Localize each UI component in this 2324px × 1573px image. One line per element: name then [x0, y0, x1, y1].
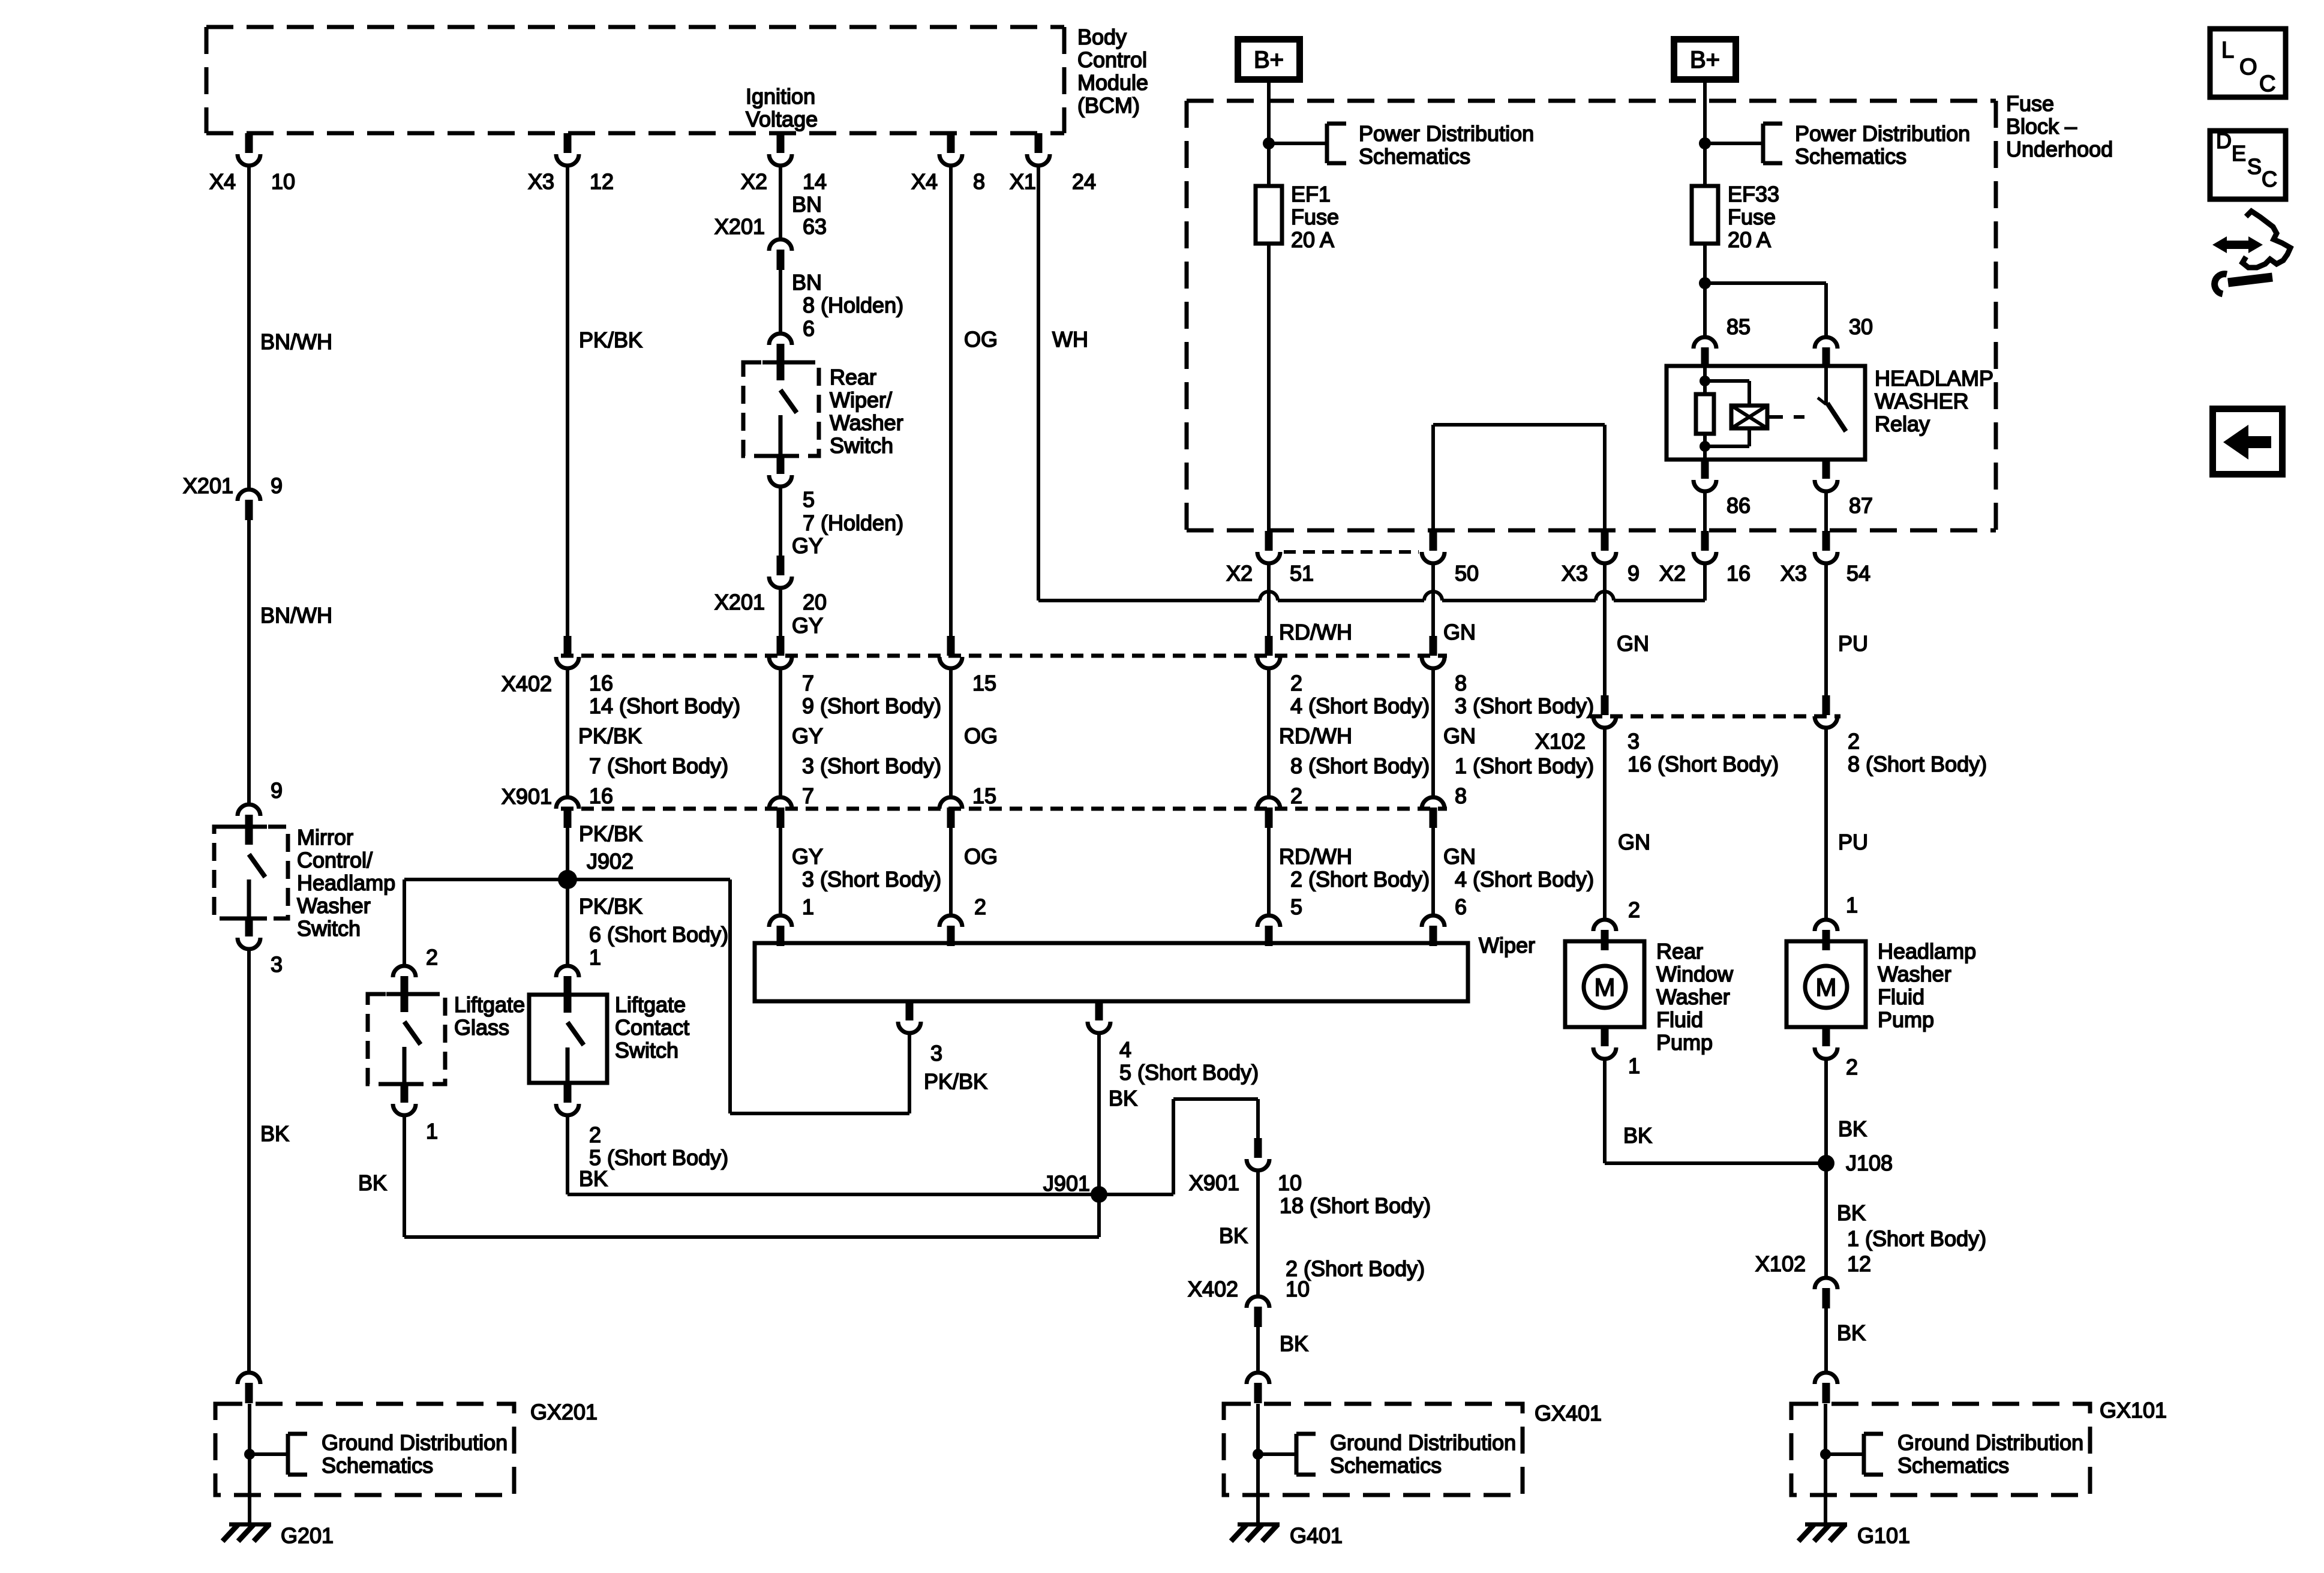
svg-text:15: 15: [972, 671, 996, 695]
svg-text:X2: X2: [1226, 561, 1253, 586]
svg-text:GX101: GX101: [2100, 1398, 2167, 1422]
svg-text:4: 4: [1119, 1037, 1131, 1062]
svg-text:86: 86: [1727, 493, 1750, 518]
svg-text:WH: WH: [1052, 327, 1088, 352]
svg-text:Ground Distribution: Ground Distribution: [1330, 1430, 1516, 1455]
svg-text:X901: X901: [1189, 1170, 1239, 1195]
svg-text:3: 3: [1628, 729, 1640, 754]
svg-text:5 (Short Body): 5 (Short Body): [589, 1145, 728, 1170]
svg-text:1 (Short Body): 1 (Short Body): [1455, 754, 1594, 778]
svg-text:OG: OG: [964, 844, 998, 869]
svg-text:16: 16: [589, 671, 613, 695]
svg-text:X4: X4: [209, 169, 236, 194]
svg-text:8: 8: [1455, 784, 1467, 808]
svg-text:6: 6: [803, 316, 815, 341]
svg-text:Control: Control: [1077, 47, 1147, 72]
svg-text:1: 1: [1846, 893, 1858, 917]
svg-text:2: 2: [1848, 729, 1860, 754]
svg-text:Schematics: Schematics: [322, 1453, 433, 1478]
svg-text:Liftgate: Liftgate: [615, 992, 686, 1017]
svg-text:X2: X2: [1659, 561, 1686, 586]
svg-text:8 (Short Body): 8 (Short Body): [1290, 754, 1430, 778]
svg-text:2: 2: [589, 1122, 601, 1147]
svg-text:Control/: Control/: [297, 848, 373, 872]
svg-text:Rear: Rear: [1656, 939, 1703, 963]
svg-text:X102: X102: [1755, 1251, 1806, 1276]
svg-text:X102: X102: [1535, 729, 1586, 754]
svg-text:Schematics: Schematics: [1795, 144, 1906, 169]
svg-text:GY: GY: [792, 844, 823, 869]
svg-text:X3: X3: [1780, 561, 1807, 586]
svg-text:OG: OG: [964, 724, 998, 748]
svg-text:Voltage: Voltage: [746, 107, 818, 131]
svg-text:PK/BK: PK/BK: [579, 328, 642, 352]
svg-text:RD/WH: RD/WH: [1279, 620, 1352, 644]
svg-text:Washer: Washer: [297, 893, 371, 918]
svg-text:50: 50: [1455, 561, 1479, 586]
svg-text:Fuse: Fuse: [2006, 91, 2054, 116]
svg-text:BK: BK: [1219, 1223, 1248, 1248]
svg-text:Relay: Relay: [1875, 412, 1930, 436]
svg-text:S: S: [2247, 154, 2262, 179]
svg-text:2: 2: [1290, 784, 1302, 808]
svg-text:BK: BK: [1838, 1116, 1867, 1141]
svg-text:24: 24: [1072, 169, 1096, 194]
svg-text:BK: BK: [579, 1166, 608, 1191]
svg-text:9: 9: [271, 473, 283, 498]
svg-text:GN: GN: [1617, 631, 1649, 656]
svg-text:3: 3: [930, 1041, 942, 1065]
svg-text:C: C: [2262, 167, 2277, 191]
svg-text:16: 16: [589, 784, 613, 808]
svg-text:Fuse: Fuse: [1291, 205, 1339, 229]
svg-text:7 (Short Body): 7 (Short Body): [589, 754, 728, 778]
svg-text:1: 1: [802, 894, 814, 919]
svg-text:X2: X2: [741, 169, 767, 194]
svg-text:GY: GY: [792, 533, 823, 558]
svg-text:BK: BK: [1837, 1320, 1866, 1345]
svg-text:9: 9: [1628, 561, 1640, 586]
svg-text:Power Distribution: Power Distribution: [1359, 121, 1534, 146]
svg-text:1: 1: [589, 945, 601, 969]
svg-text:X3: X3: [1562, 561, 1588, 586]
svg-text:RD/WH: RD/WH: [1279, 724, 1352, 748]
svg-text:X201: X201: [714, 214, 765, 239]
svg-text:10: 10: [1278, 1170, 1302, 1195]
svg-text:PK/BK: PK/BK: [924, 1069, 987, 1094]
svg-text:Block –: Block –: [2006, 114, 2077, 139]
svg-text:B+: B+: [1690, 47, 1720, 73]
svg-text:Headlamp: Headlamp: [297, 870, 395, 895]
svg-text:2: 2: [1290, 671, 1302, 695]
svg-text:16 (Short Body): 16 (Short Body): [1628, 752, 1779, 776]
svg-text:C: C: [2259, 71, 2275, 97]
svg-text:7: 7: [802, 784, 814, 808]
svg-text:PK/BK: PK/BK: [578, 724, 642, 748]
svg-text:16: 16: [1727, 561, 1750, 586]
svg-text:5 (Short Body): 5 (Short Body): [1119, 1060, 1259, 1085]
svg-text:1: 1: [1628, 1053, 1640, 1078]
svg-text:GN: GN: [1443, 844, 1476, 869]
svg-text:Fluid: Fluid: [1878, 984, 1924, 1009]
svg-text:14 (Short Body): 14 (Short Body): [589, 694, 740, 718]
svg-text:J108: J108: [1846, 1151, 1893, 1175]
svg-text:6 (Short Body): 6 (Short Body): [589, 922, 728, 947]
svg-text:Mirror: Mirror: [297, 825, 353, 849]
svg-text:9: 9: [271, 778, 283, 803]
svg-text:Contact: Contact: [615, 1015, 689, 1040]
svg-text:Window: Window: [1656, 962, 1734, 986]
svg-text:X201: X201: [183, 473, 233, 498]
svg-text:8 (Short Body): 8 (Short Body): [1848, 752, 1987, 776]
svg-text:10: 10: [1286, 1277, 1310, 1301]
svg-text:PK/BK: PK/BK: [579, 894, 642, 918]
svg-text:Pump: Pump: [1878, 1007, 1934, 1032]
svg-text:3 (Short Body): 3 (Short Body): [802, 867, 941, 891]
svg-text:87: 87: [1849, 493, 1873, 518]
svg-text:X402: X402: [1188, 1277, 1238, 1301]
svg-text:G201: G201: [281, 1523, 334, 1548]
svg-text:X3: X3: [528, 169, 554, 194]
svg-text:Rear: Rear: [830, 365, 876, 389]
svg-text:BK: BK: [1623, 1123, 1652, 1148]
svg-text:20 A: 20 A: [1728, 227, 1771, 252]
svg-text:Schematics: Schematics: [1897, 1453, 2009, 1478]
svg-text:1 (Short Body): 1 (Short Body): [1847, 1226, 1986, 1251]
svg-text:Power Distribution: Power Distribution: [1795, 121, 1970, 146]
svg-text:Ground Distribution: Ground Distribution: [322, 1430, 508, 1455]
svg-text:OG: OG: [964, 327, 998, 352]
svg-text:GN: GN: [1443, 724, 1476, 748]
svg-text:4 (Short Body): 4 (Short Body): [1455, 867, 1594, 891]
svg-text:Wiper/: Wiper/: [830, 388, 892, 412]
svg-text:J902: J902: [587, 849, 633, 873]
svg-text:GY: GY: [792, 613, 823, 638]
svg-text:X201: X201: [714, 590, 765, 614]
svg-text:GX201: GX201: [530, 1400, 597, 1424]
svg-text:5: 5: [803, 487, 815, 512]
svg-text:Underhood: Underhood: [2006, 137, 2113, 161]
svg-text:54: 54: [1846, 561, 1870, 586]
svg-text:2: 2: [1846, 1055, 1858, 1079]
svg-text:2: 2: [426, 945, 438, 969]
svg-text:BN: BN: [792, 192, 822, 217]
svg-text:M: M: [1595, 973, 1616, 1001]
svg-text:51: 51: [1290, 561, 1314, 586]
svg-text:3 (Short Body): 3 (Short Body): [802, 754, 941, 778]
svg-text:9 (Short Body): 9 (Short Body): [802, 694, 941, 718]
svg-text:Body: Body: [1077, 25, 1127, 49]
svg-text:X901: X901: [502, 784, 552, 809]
svg-text:Schematics: Schematics: [1359, 144, 1470, 169]
svg-text:Glass: Glass: [454, 1015, 509, 1040]
svg-text:15: 15: [972, 784, 996, 808]
svg-text:Washer: Washer: [1656, 984, 1730, 1009]
svg-text:EF1: EF1: [1291, 182, 1331, 206]
svg-text:14: 14: [803, 169, 827, 194]
svg-text:3: 3: [271, 952, 283, 977]
svg-text:G401: G401: [1290, 1523, 1343, 1548]
svg-text:2: 2: [974, 894, 986, 919]
svg-text:GN: GN: [1618, 830, 1650, 854]
svg-text:Washer: Washer: [830, 410, 903, 435]
svg-text:30: 30: [1849, 314, 1873, 339]
svg-text:PU: PU: [1838, 631, 1868, 656]
svg-text:BK: BK: [358, 1170, 387, 1195]
svg-text:1: 1: [426, 1119, 438, 1143]
svg-text:WASHER: WASHER: [1875, 389, 1969, 413]
svg-text:O: O: [2239, 55, 2257, 80]
svg-text:(BCM): (BCM): [1077, 93, 1140, 118]
svg-text:Pump: Pump: [1656, 1030, 1713, 1055]
svg-text:E: E: [2232, 141, 2246, 166]
svg-text:5: 5: [1290, 894, 1302, 919]
svg-text:Washer: Washer: [1878, 962, 1951, 986]
svg-text:G101: G101: [1857, 1523, 1910, 1548]
svg-text:Wiper: Wiper: [1479, 933, 1535, 957]
svg-text:HEADLAMP: HEADLAMP: [1875, 366, 1993, 391]
svg-text:X4: X4: [911, 169, 938, 194]
svg-text:18 (Short Body): 18 (Short Body): [1280, 1193, 1431, 1218]
svg-text:BK: BK: [260, 1121, 289, 1146]
svg-text:8: 8: [973, 169, 985, 194]
svg-text:2: 2: [1628, 897, 1640, 922]
svg-text:BK: BK: [1109, 1086, 1137, 1110]
svg-text:10: 10: [271, 169, 295, 194]
svg-text:L: L: [2221, 38, 2234, 63]
svg-text:20: 20: [803, 590, 827, 614]
svg-text:6: 6: [1455, 894, 1467, 919]
svg-text:Fuse: Fuse: [1728, 205, 1776, 229]
svg-text:63: 63: [803, 214, 827, 239]
svg-text:BN/WH: BN/WH: [260, 603, 332, 628]
svg-text:7 (Holden): 7 (Holden): [803, 511, 903, 535]
svg-text:BK: BK: [1837, 1200, 1866, 1225]
svg-text:8: 8: [1455, 671, 1467, 695]
svg-text:12: 12: [590, 169, 614, 194]
svg-text:PU: PU: [1838, 830, 1868, 854]
svg-text:7: 7: [802, 671, 814, 695]
svg-text:2 (Short Body): 2 (Short Body): [1290, 867, 1430, 891]
svg-text:Switch: Switch: [615, 1038, 678, 1062]
svg-text:Schematics: Schematics: [1330, 1453, 1442, 1478]
svg-text:X402: X402: [502, 671, 552, 696]
svg-text:B+: B+: [1254, 47, 1284, 73]
svg-text:Liftgate: Liftgate: [454, 992, 525, 1017]
svg-text:Switch: Switch: [297, 916, 361, 941]
svg-text:4 (Short Body): 4 (Short Body): [1290, 694, 1430, 718]
svg-text:RD/WH: RD/WH: [1279, 844, 1352, 869]
svg-text:Fluid: Fluid: [1656, 1007, 1703, 1032]
svg-text:85: 85: [1727, 314, 1750, 339]
svg-text:8 (Holden): 8 (Holden): [803, 293, 903, 317]
svg-text:GX401: GX401: [1535, 1401, 1602, 1425]
svg-text:20 A: 20 A: [1291, 227, 1334, 252]
svg-text:PK/BK: PK/BK: [579, 821, 642, 846]
svg-text:BN: BN: [792, 270, 822, 295]
svg-text:Switch: Switch: [830, 433, 893, 458]
svg-text:EF33: EF33: [1728, 182, 1779, 206]
svg-text:BN/WH: BN/WH: [260, 329, 332, 354]
svg-text:J901: J901: [1043, 1171, 1090, 1196]
svg-text:12: 12: [1847, 1251, 1871, 1276]
svg-text:X1: X1: [1010, 169, 1036, 194]
svg-text:M: M: [1816, 973, 1837, 1001]
svg-text:Ignition: Ignition: [746, 84, 815, 109]
svg-text:BK: BK: [1280, 1331, 1308, 1356]
svg-text:Ground Distribution: Ground Distribution: [1897, 1430, 2083, 1455]
svg-text:3 (Short Body): 3 (Short Body): [1455, 694, 1594, 718]
svg-text:GY: GY: [792, 724, 823, 748]
svg-text:GN: GN: [1443, 620, 1476, 644]
svg-text:Headlamp: Headlamp: [1878, 939, 1976, 963]
svg-text:Module: Module: [1077, 70, 1148, 95]
